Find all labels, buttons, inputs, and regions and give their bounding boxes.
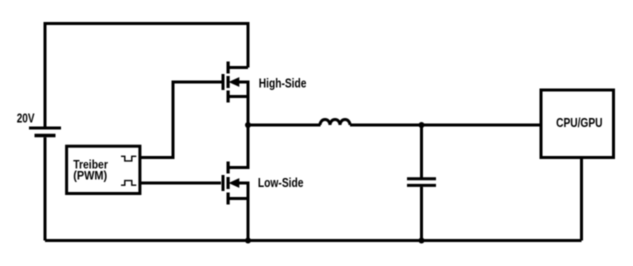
node junction dot capacitor on ground rail	[419, 238, 425, 244]
transistor Q2 low-side MOSFET	[223, 162, 248, 205]
wire bottom ground rail	[45, 239, 582, 242]
wire switch node down to low-side drain	[228, 125, 248, 168]
waveform icon high pulse (bottom output)	[121, 181, 136, 186]
wire low-side source to ground rail	[247, 199, 250, 241]
label High-Side	[259, 76, 307, 90]
load box CPU/GPU	[541, 90, 614, 158]
wire top rail from battery to high-side drain	[45, 24, 248, 127]
svg-text:20V: 20V	[17, 111, 35, 125]
label Treiber (PWM)	[73, 158, 108, 183]
wire high-side source to switch node	[247, 97, 250, 126]
voltage source V1 battery 20V	[29, 128, 61, 136]
wire capacitor top lead	[420, 125, 423, 178]
node junction dot low-side source on ground rail	[245, 238, 251, 244]
wire switch node to inductor	[248, 124, 321, 127]
waveform icon low pulse (top output)	[121, 156, 136, 161]
label CPU/GPU	[556, 116, 602, 130]
wire gate drive to high-side (box to riser to gate)	[140, 82, 222, 158]
wire inductor to CPU/GPU	[350, 124, 541, 127]
svg-text:CPU/GPU: CPU/GPU	[556, 116, 602, 130]
inductor L1	[320, 120, 350, 126]
capacitor C1	[407, 179, 436, 186]
driver box U1 Treiber (PWM)	[67, 146, 140, 193]
wire CPU/GPU return to ground rail	[580, 158, 583, 241]
transistor Q1 high-side MOSFET	[223, 62, 248, 103]
label 20V	[17, 111, 35, 125]
wire capacitor bottom lead	[420, 187, 423, 241]
node SW junction dot	[245, 122, 251, 128]
svg-text:High-Side: High-Side	[259, 76, 307, 90]
label Low-Side	[258, 176, 304, 190]
node junction dot output to capacitor	[419, 122, 425, 128]
svg-text:(PWM): (PWM)	[73, 169, 107, 183]
svg-text:Low-Side: Low-Side	[258, 176, 304, 190]
wire left rail battery minus to bottom rail	[44, 137, 47, 240]
wire gate drive to low-side	[140, 182, 221, 185]
